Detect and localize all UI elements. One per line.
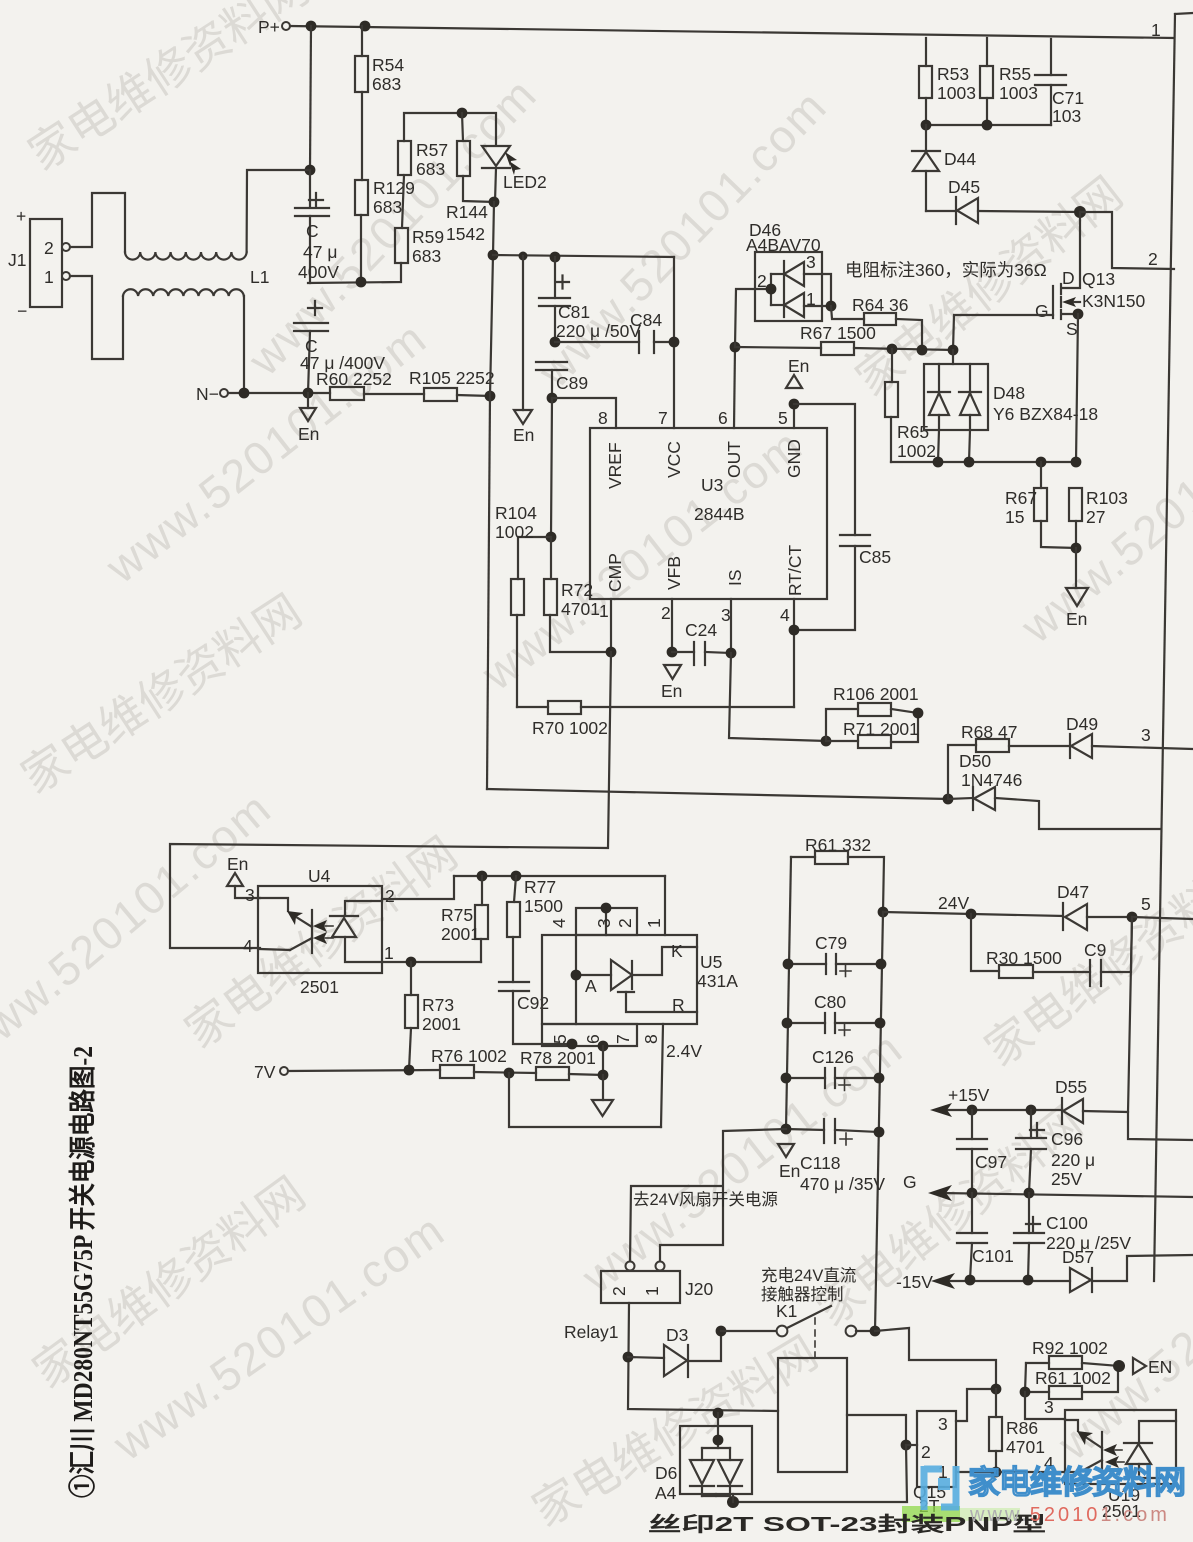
svg-text:G: G [1035, 301, 1049, 321]
wire branch to J20 pin2 [630, 1186, 722, 1263]
arrow -15V [931, 1273, 955, 1289]
resistor R30 1500 [971, 914, 1090, 978]
node R106 R71 right junction [913, 708, 924, 719]
wire drain node to terminal 2 [1080, 212, 1174, 269]
svg-text:15: 15 [1005, 507, 1024, 527]
wire cap column left vertical [786, 857, 791, 1129]
svg-text:C92: C92 [517, 993, 549, 1013]
wire VFB pin down [671, 599, 673, 652]
svg-text:A4: A4 [655, 1483, 677, 1503]
diode D57 [1062, 1247, 1193, 1292]
node R67 R103 bottom junction [1071, 543, 1082, 554]
wire R53 R55 C71 bottom link [926, 124, 1051, 126]
node L1 to cap junction [305, 165, 316, 176]
node C100 bottom [1023, 1275, 1034, 1286]
svg-text:P+: P+ [258, 17, 280, 37]
node OUT R67 junction [730, 342, 741, 353]
node R77 top [511, 871, 522, 882]
wire C118 node to fan supply and J20 [660, 1129, 786, 1263]
svg-text:R61 1002: R61 1002 [1035, 1368, 1111, 1388]
svg-text:OUT: OUT [724, 441, 744, 478]
node C80 right [875, 1018, 886, 1029]
node CMP R72 junction [606, 647, 617, 658]
svg-text:103: 103 [1052, 106, 1081, 126]
node R71 R106 left junction [821, 736, 832, 747]
wire to page edge 5 [1132, 917, 1193, 919]
svg-text:8: 8 [641, 1034, 661, 1044]
capacitor C97 [957, 1110, 1007, 1193]
svg-text:1: 1 [384, 943, 394, 963]
resistor R64 36 [831, 295, 922, 350]
svg-text:431A: 431A [697, 971, 738, 991]
node C118 right [874, 1127, 885, 1138]
svg-text:2: 2 [661, 603, 671, 623]
svg-text:6: 6 [718, 408, 728, 428]
svg-text:683: 683 [372, 74, 401, 94]
node R78 right junction [598, 1070, 609, 1081]
ground triangle below R78 [592, 1075, 613, 1116]
svg-text:R67 1500: R67 1500 [800, 323, 876, 343]
svg-text:683: 683 [412, 246, 441, 266]
svg-text:去24V风扇开关电源: 去24V风扇开关电源 [633, 1190, 778, 1209]
svg-text:C9: C9 [1084, 940, 1106, 960]
svg-text:4: 4 [549, 918, 569, 928]
svg-text:3: 3 [721, 605, 731, 625]
wire CMP pin down [610, 599, 612, 652]
svg-text:5: 5 [1141, 894, 1151, 914]
terminal 7V [254, 1062, 288, 1082]
node R103 top [1071, 457, 1082, 468]
svg-text:R86: R86 [1006, 1418, 1038, 1438]
wire feedback long horizontal to D50 [487, 789, 948, 799]
svg-text:2501: 2501 [300, 977, 339, 997]
svg-text:2: 2 [921, 1442, 931, 1462]
En flag at U4 pin3 [227, 873, 243, 886]
svg-text:R76 1002: R76 1002 [431, 1046, 507, 1066]
svg-text:R106 2001: R106 2001 [833, 684, 919, 704]
svg-text:R59: R59 [412, 227, 444, 247]
wire J1 pin2 to L1 [70, 193, 125, 252]
wire U5 pin6 down to R78 node [602, 1046, 604, 1075]
svg-text:Q13: Q13 [1082, 269, 1115, 289]
svg-text:4: 4 [243, 936, 253, 956]
capacitor C100 220u/25V [1014, 1193, 1131, 1280]
svg-text:27: 27 [1086, 507, 1105, 527]
svg-text:1002: 1002 [495, 522, 534, 542]
wire top right tick [1175, 13, 1193, 14]
svg-text:G: G [903, 1172, 917, 1192]
svg-text:R57: R57 [416, 140, 448, 160]
node C80 left [782, 1018, 793, 1029]
wire IS to R71 line [729, 653, 826, 741]
resistor R76 1002 [431, 1046, 536, 1078]
svg-text:电阻标注360，实际为36Ω: 电阻标注360，实际为36Ω [845, 260, 1047, 280]
svg-text:R92 1002: R92 1002 [1032, 1338, 1108, 1358]
svg-text:683: 683 [416, 159, 445, 179]
wire 7V branch to U5 pin8 column [509, 1073, 661, 1127]
shunt reference U5 431A [542, 876, 738, 1046]
arrow G [928, 1185, 952, 1201]
ground En below C81 line [513, 256, 534, 445]
svg-text:1: 1 [806, 289, 816, 309]
wire R60 to R105 [364, 393, 424, 395]
capacitor C101 [957, 1193, 1014, 1280]
En flag below C118 left [778, 1144, 800, 1181]
node top rail junction 1 [306, 21, 317, 32]
node feedback column top [485, 391, 496, 402]
node C81 bottom C84 line [550, 337, 561, 348]
capacitor C92 [499, 982, 572, 1044]
capacitor C80 [787, 992, 880, 1036]
svg-text:VFB: VFB [664, 556, 684, 590]
node C97 bottom G [967, 1188, 978, 1199]
node IS C24 junction [726, 648, 737, 659]
svg-text:D6: D6 [655, 1463, 677, 1483]
wire K1 to Q15 collector jog [875, 1328, 996, 1389]
svg-text:25V: 25V [1051, 1169, 1082, 1189]
svg-text:www.520101.com: www.520101.com [969, 1504, 1170, 1526]
connector J20 [601, 1262, 713, 1304]
svg-text:C100: C100 [1046, 1213, 1088, 1233]
node R55 bottom [982, 120, 993, 131]
node N cap junction [303, 388, 314, 399]
svg-text:J20: J20 [685, 1279, 713, 1299]
node R65 top [887, 344, 898, 355]
svg-text:家电维修资料网: 家电维修资料网 [968, 1464, 1185, 1500]
arrow +15V [930, 1103, 952, 1117]
svg-text:400V: 400V [298, 262, 339, 282]
node VCC C84 junction [669, 337, 680, 348]
svg-text:D55: D55 [1055, 1077, 1087, 1097]
node C96 top [1026, 1105, 1037, 1116]
resistor R72 4701 [544, 537, 611, 652]
node Q13 drain junction [1074, 206, 1086, 218]
capacitor C126 [786, 1047, 879, 1091]
wire LED column down [490, 202, 494, 396]
svg-text:En: En [298, 424, 319, 444]
svg-text:IS: IS [725, 569, 745, 586]
wire +15V rail [936, 1109, 1062, 1111]
node R75 top [477, 871, 488, 882]
wire R92 R61 to U19 pin3 [1025, 1392, 1065, 1419]
node C97 top [967, 1105, 978, 1116]
diode D48 Y6 BZX84-18 dual zener [924, 350, 1098, 462]
svg-text:47 μ: 47 μ [303, 242, 337, 262]
svg-text:3: 3 [594, 918, 614, 928]
node VFB C24 junction [667, 647, 678, 658]
svg-text:1: 1 [644, 918, 664, 928]
node D48 right leg [964, 457, 975, 468]
svg-text:2: 2 [757, 271, 767, 291]
wire L1 bottom right to N line [243, 296, 245, 393]
node GND En C85 junction [789, 399, 800, 410]
svg-text:R78 2001: R78 2001 [520, 1048, 596, 1068]
svg-text:D45: D45 [948, 177, 980, 197]
svg-text:2: 2 [385, 886, 395, 906]
node R61 left [1020, 1387, 1031, 1398]
svg-text:R55: R55 [999, 64, 1031, 84]
svg-text:3: 3 [806, 252, 816, 272]
svg-text:K1: K1 [776, 1301, 797, 1321]
resistor R53 1003 [919, 38, 976, 125]
wire OUT pin up to D46 node [734, 347, 735, 428]
node C81 top [550, 252, 561, 263]
wire U4 pin2 to R75 line [382, 876, 454, 899]
diode D46 A4BAV70 [735, 220, 831, 347]
capacitor C9 [1084, 917, 1132, 986]
svg-text:1002: 1002 [897, 441, 936, 461]
resistor R77 1500 [507, 876, 563, 982]
svg-text:2: 2 [609, 1286, 629, 1296]
node C96 bottom G [1024, 1188, 1035, 1199]
svg-text:C80: C80 [814, 992, 846, 1012]
svg-text:2844B: 2844B [694, 504, 745, 524]
svg-text:+15V: +15V [948, 1085, 990, 1105]
wire R70 line [517, 706, 548, 708]
wire J20 pin2 column down [628, 1303, 778, 1411]
node gate D48 top [948, 345, 959, 356]
svg-text:U5: U5 [700, 952, 722, 972]
inductor L1 bottom winding [123, 289, 244, 296]
wire U4 pin1 line [382, 961, 481, 963]
resistor R105 2252 [409, 368, 495, 401]
node C126 right [874, 1073, 885, 1084]
resistor R61 332 [791, 835, 884, 912]
node D47 out junction 5 [1127, 912, 1138, 923]
node U5 pin5 C92 [567, 1039, 578, 1050]
wire RT/CT pin down [793, 599, 795, 707]
svg-text:R77: R77 [524, 877, 556, 897]
resistor R71 2001 [826, 713, 919, 748]
node LED column C81 line [488, 250, 499, 261]
wire gate line [953, 315, 1053, 350]
svg-text:D3: D3 [666, 1325, 688, 1345]
node Q15 pin2 [901, 1440, 912, 1451]
svg-text:R103: R103 [1086, 488, 1128, 508]
node K1 left junction [716, 1326, 727, 1337]
svg-text:N−: N− [196, 384, 219, 404]
svg-text:U4: U4 [308, 866, 331, 886]
svg-text:4701: 4701 [561, 599, 600, 619]
node D6 top junction [713, 1408, 724, 1419]
svg-text:Relay1: Relay1 [564, 1322, 618, 1342]
node R53 bottom [921, 120, 932, 131]
svg-text:3: 3 [245, 885, 255, 905]
svg-text:1003: 1003 [999, 83, 1038, 103]
svg-text:R72: R72 [561, 580, 593, 600]
svg-text:−: − [17, 301, 27, 321]
svg-text:2: 2 [1148, 249, 1158, 269]
resistor R129 [355, 178, 415, 282]
transistor Q15 2T [913, 1389, 996, 1516]
node R104 R72 top junction [546, 532, 557, 543]
resistor R61 1002 [1025, 1363, 1118, 1399]
node EN junction [1113, 1360, 1125, 1372]
svg-text:C24: C24 [685, 620, 717, 640]
node C79 left [783, 959, 794, 970]
diode D47 [1057, 882, 1132, 930]
logo bracket icon [924, 1466, 959, 1510]
svg-text:D48: D48 [993, 383, 1025, 403]
svg-text:K3N150: K3N150 [1082, 291, 1146, 311]
svg-text:R53: R53 [937, 64, 969, 84]
svg-text:+: + [16, 206, 26, 226]
resistor R55 1003 [980, 38, 1038, 125]
wire N line [228, 392, 330, 394]
svg-text:C84: C84 [630, 310, 662, 330]
svg-text:1: 1 [1151, 20, 1161, 40]
En flag at GND pin [786, 356, 809, 388]
contactor coil box K1 [778, 1358, 847, 1472]
capacitor C85 [794, 535, 891, 630]
wire 5 node down to D55 jog [1128, 917, 1132, 1112]
svg-text:3: 3 [938, 1414, 948, 1434]
svg-text:1542: 1542 [446, 224, 485, 244]
svg-text:C71: C71 [1052, 88, 1084, 108]
transistor Q13 K3N150 MOSFET [1035, 212, 1146, 339]
green highlight [902, 1506, 960, 1522]
capacitor C89 [536, 362, 588, 398]
diode D3 [628, 1325, 721, 1377]
wire top rail P+ to bus [290, 26, 1174, 38]
wire coil box to Q15 pin2 [847, 1415, 906, 1445]
resistor R73 2001 [405, 962, 461, 1070]
svg-text:R104: R104 [495, 503, 537, 523]
wire source column down [1076, 314, 1078, 462]
node K1 right junction [870, 1326, 881, 1337]
resistor R67 15 [1005, 462, 1076, 548]
capacitor C118 470u/35V [786, 1119, 885, 1194]
svg-text:C85: C85 [859, 547, 891, 567]
node D6 bottom [727, 1496, 739, 1508]
node C118 left [781, 1124, 792, 1135]
wire GND pin stub [793, 404, 795, 428]
svg-text:接触器控制: 接触器控制 [761, 1285, 844, 1304]
wire R57 R144 LED top link [404, 113, 496, 145]
capacitor C24 [672, 620, 731, 665]
svg-text:R60 2252: R60 2252 [316, 369, 392, 389]
svg-text:D49: D49 [1066, 714, 1098, 734]
resistor R144 1542 [446, 113, 494, 244]
wire R105 to feedback column [457, 395, 490, 396]
svg-text:D57: D57 [1062, 1247, 1094, 1267]
wire -15V rail [944, 1280, 1070, 1282]
EN arrow flag [1133, 1357, 1172, 1377]
svg-text:2001: 2001 [441, 924, 480, 944]
diode D49 [1066, 714, 1193, 758]
svg-text:4701: 4701 [1006, 1437, 1045, 1457]
svg-text:7V: 7V [254, 1062, 276, 1082]
wire J1 pin1 to L1 [70, 276, 123, 359]
svg-text:D: D [1062, 268, 1075, 288]
capacitor C79 [788, 933, 881, 977]
wire GND to C85 [794, 404, 855, 535]
En flag below VFB [661, 665, 682, 701]
svg-text:R73: R73 [422, 995, 454, 1015]
node top rail junction 2 [360, 21, 371, 32]
optocoupler U19 2501 [1065, 1410, 1176, 1521]
node R86 top [991, 1384, 1002, 1395]
resistor R57 683 [398, 140, 448, 179]
svg-text:D50: D50 [959, 751, 991, 771]
wire U5 pin8 down [661, 1024, 663, 1127]
svg-text:En: En [661, 681, 682, 701]
svg-text:①汇川 MD280NT55G75P 开关电源电路图-2: ①汇川 MD280NT55G75P 开关电源电路图-2 [67, 1046, 98, 1498]
node RT/CT C85 junction [789, 625, 800, 636]
capacitor C81 220u/50V [539, 257, 641, 342]
node R73 top [406, 957, 417, 968]
capacitor C96 220u 25V [1016, 1110, 1095, 1193]
svg-text:R144: R144 [446, 202, 488, 222]
diode D44 [912, 125, 976, 211]
wire R104 top link [518, 537, 551, 579]
node R67 15 top [1036, 457, 1047, 468]
node C101 bottom [965, 1275, 976, 1286]
ground En below R67 R103 [1066, 548, 1088, 629]
node 7V branch down [504, 1068, 515, 1079]
resistor R106 2001 [826, 684, 919, 741]
svg-text:RT/CT: RT/CT [785, 544, 805, 596]
resistor R68 47 [948, 722, 1070, 799]
wire C81 top line [493, 255, 674, 257]
node R86 bottom pin4 line [991, 1467, 1002, 1478]
wire VREF line [552, 398, 616, 428]
svg-text:EN: EN [1148, 1357, 1172, 1377]
svg-text:J1: J1 [8, 250, 26, 270]
svg-text:En: En [779, 1161, 800, 1181]
node R64 bottom [917, 345, 928, 356]
svg-text:24V: 24V [938, 893, 969, 913]
svg-text:C126: C126 [812, 1047, 854, 1067]
svg-text:R75: R75 [441, 905, 473, 925]
wire R75 R77 U5pin1 top line [454, 875, 665, 877]
inductor L1 top winding [125, 252, 247, 260]
svg-text:A: A [585, 976, 597, 996]
svg-text:1: 1 [642, 1286, 662, 1296]
svg-text:5: 5 [778, 408, 788, 428]
svg-text:D47: D47 [1057, 882, 1089, 902]
node D3 anode [623, 1352, 634, 1363]
svg-text:C81: C81 [558, 302, 590, 322]
resistor R104 1002 [495, 503, 537, 707]
node 24V R30 branch [966, 909, 977, 920]
diode D6 A4 [655, 1413, 752, 1503]
wire pin2 stub [906, 1444, 917, 1446]
resistor R78 2001 [520, 1048, 603, 1080]
wire cap column from P+ [310, 26, 311, 170]
svg-text:1500: 1500 [524, 896, 563, 916]
svg-text:GND: GND [784, 439, 804, 478]
svg-text:1N4746: 1N4746 [961, 770, 1022, 790]
resistor R92 1002 [1026, 1338, 1119, 1369]
node C126 left [781, 1073, 792, 1084]
node C89 bottom VREF line [547, 393, 558, 404]
svg-text:En: En [1066, 609, 1087, 629]
svg-text:C118: C118 [800, 1153, 841, 1173]
svg-text:R105 2252: R105 2252 [409, 368, 495, 388]
svg-text:U3: U3 [701, 475, 723, 495]
diode D50 1N4746 [948, 751, 1160, 829]
svg-text:VCC: VCC [664, 441, 684, 478]
svg-text:R54: R54 [372, 55, 404, 75]
terminal N [196, 384, 228, 404]
svg-text:220 μ /50V: 220 μ /50V [556, 321, 641, 341]
wire CMP feedback to U4 pin4 [170, 652, 611, 948]
node C79 right [876, 959, 887, 970]
svg-text:充电24V直流: 充电24V直流 [761, 1266, 856, 1285]
wire pin2 down to bottom loop [733, 1445, 907, 1502]
svg-text:3: 3 [1141, 725, 1151, 745]
